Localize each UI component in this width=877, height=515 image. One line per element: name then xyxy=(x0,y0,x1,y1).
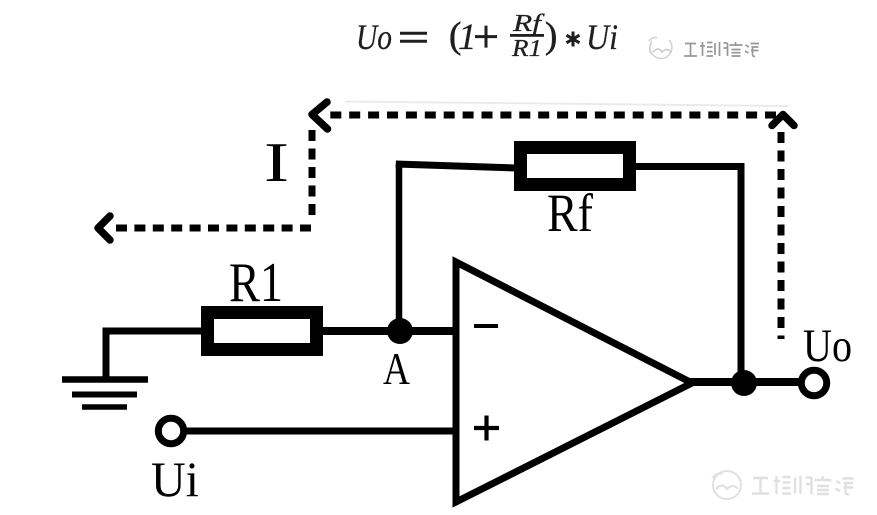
resistor Rf xyxy=(514,141,636,191)
wire: Ui to op-amp non-inverting input xyxy=(183,428,456,435)
svg-text:Rf: Rf xyxy=(512,11,546,37)
node A junction dot xyxy=(387,318,413,344)
svg-text:Rf: Rf xyxy=(547,183,593,243)
svg-text:): ) xyxy=(545,16,557,57)
arrowhead left of top dashed line xyxy=(312,102,328,129)
output node junction dot xyxy=(731,370,757,396)
svg-text:Uo: Uo xyxy=(356,17,392,57)
watermark text 工程师看海 bottom right xyxy=(752,476,854,495)
dashed vertical left segment xyxy=(309,130,316,215)
wire: R1 to op-amp inverting input xyxy=(321,327,456,335)
dashed vertical right segment xyxy=(778,132,785,339)
formula Uo = (1 + Rf/R1) * Ui xyxy=(356,11,618,62)
ground xyxy=(62,328,148,407)
wire: op-amp output xyxy=(688,378,800,386)
resistor R1 xyxy=(201,306,323,356)
arrowhead at left end pointing left xyxy=(98,216,110,240)
svg-text:A: A xyxy=(383,343,410,394)
svg-text:1: 1 xyxy=(458,17,477,58)
wire: right vertical down to output node xyxy=(738,163,745,383)
watermark logo top right xyxy=(649,37,672,58)
wire: ground to R1 xyxy=(103,328,204,335)
wire: node A up to feedback xyxy=(396,164,403,331)
wire: Rf right to vertical xyxy=(634,163,744,170)
op-amp U1 triangle xyxy=(456,262,692,502)
arrowhead pointing up at right xyxy=(772,115,794,126)
wire: feedback top left horizontal to Rf xyxy=(396,164,516,168)
svg-text:Uo: Uo xyxy=(803,320,852,372)
op-amp plus sign xyxy=(474,416,499,441)
dashed feedback current path: top horizontal xyxy=(98,102,794,339)
svg-text:Ui: Ui xyxy=(151,451,199,507)
svg-text:R1: R1 xyxy=(511,36,542,62)
faint scan ghost line above top dashed line xyxy=(345,102,788,107)
svg-text:I: I xyxy=(264,132,289,194)
op-amp minus sign xyxy=(474,324,498,328)
svg-text:Ui: Ui xyxy=(586,17,618,57)
watermark text 工程师看海 top right xyxy=(684,42,759,57)
dashed bottom horizontal segment xyxy=(116,225,311,232)
input terminal Ui circle xyxy=(158,418,183,443)
svg-text:R1: R1 xyxy=(229,252,283,314)
watermark logo bottom right xyxy=(712,471,741,499)
output terminal Uo circle xyxy=(801,370,826,395)
